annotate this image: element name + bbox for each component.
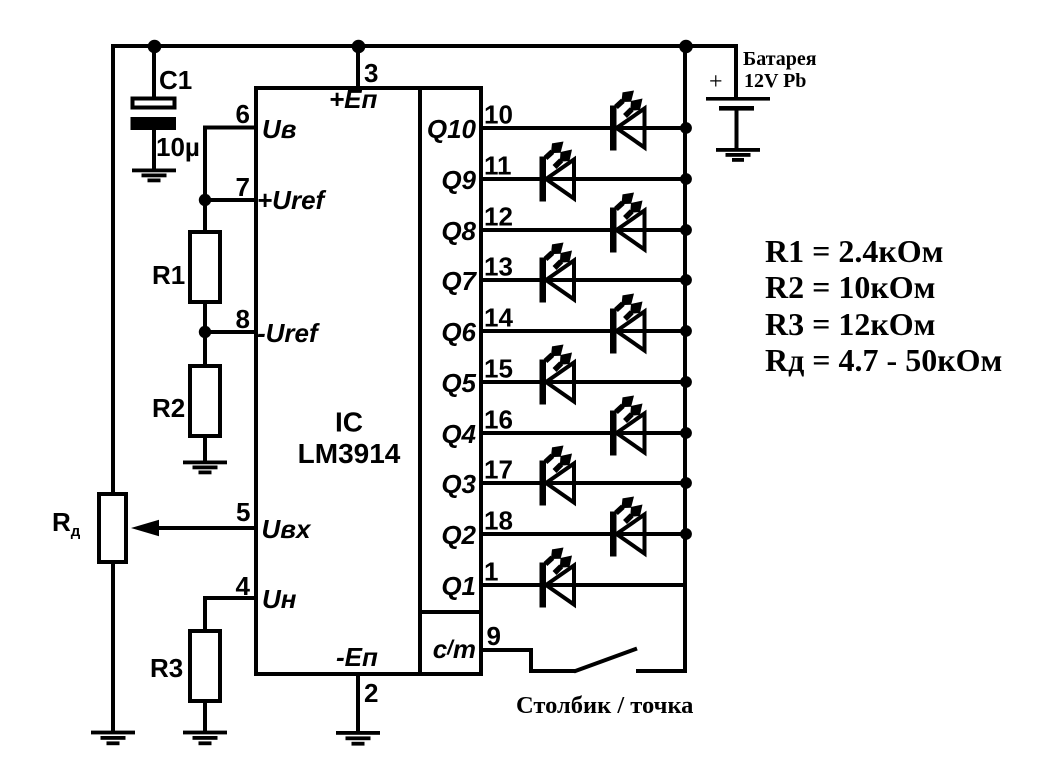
svg-text:2: 2: [364, 678, 378, 708]
junction: pin7 / R1 top: [199, 194, 211, 206]
pin 9 wire: [479, 648, 531, 652]
junction: LED bus row 13: [680, 274, 692, 286]
svg-text:R1 = 2.4кОм: R1 = 2.4кОм: [765, 233, 943, 269]
junction: LED bus row 12: [680, 224, 692, 236]
pin 6 wire: [205, 126, 256, 130]
svg-text:18: 18: [484, 506, 513, 536]
svg-text:R2 = 10кОм: R2 = 10кОм: [765, 269, 935, 305]
wire: LED anode bus: [683, 46, 687, 671]
svg-text:Rд = 4.7 - 50кОм: Rд = 4.7 - 50кОм: [765, 342, 1002, 378]
ground under C1: [132, 169, 176, 183]
svg-text:8: 8: [236, 304, 250, 334]
wire pin6 to pin7 node: [203, 126, 207, 203]
junction: LED bus row 15: [680, 376, 692, 388]
battery positive plate: [706, 97, 770, 101]
LED D17: [540, 446, 575, 506]
wire: C1 to ground: [152, 130, 156, 169]
LED D16: [610, 396, 645, 456]
wire: top +V rail: [111, 44, 738, 48]
ground battery: [716, 148, 760, 162]
svg-text:16: 16: [484, 405, 513, 435]
svg-text:7: 7: [236, 172, 250, 202]
wire output Q4 row: [479, 431, 687, 435]
wire pin4 down to R3: [203, 596, 207, 631]
svg-text:Q9: Q9: [441, 165, 476, 195]
IC inner output column line: [418, 88, 422, 672]
junction: LED bus row 14: [680, 325, 692, 337]
capacitor C1 plate bottom: [131, 117, 177, 130]
svg-text:R3 = 12кОм: R3 = 12кОм: [765, 306, 935, 342]
svg-text:Q7: Q7: [441, 266, 477, 296]
junction: LED bus row 10: [680, 122, 692, 134]
junction: bus / top rail: [679, 40, 693, 54]
junction: C1 / top rail: [148, 40, 162, 54]
IC c/m divider: [420, 610, 481, 614]
wiper arrow into Rд: [131, 520, 159, 537]
svg-text:10: 10: [484, 100, 513, 130]
LED D14: [610, 294, 645, 354]
junction: LED bus row 11: [680, 173, 692, 185]
svg-text:17: 17: [484, 455, 513, 485]
wire: left rail down to Rd: [111, 44, 115, 494]
svg-text:15: 15: [484, 354, 513, 384]
LED D15: [540, 345, 575, 405]
svg-text:Q5: Q5: [441, 368, 476, 398]
wire output Q9 row: [479, 177, 687, 181]
junction: pin8 / R2 top: [199, 326, 211, 338]
svg-text:IC: IC: [335, 407, 363, 438]
resistor R1 body: [190, 232, 220, 302]
wire output Q7 row: [479, 278, 687, 282]
svg-text:9: 9: [487, 621, 501, 651]
ground under pin 2: [336, 731, 380, 746]
wire R2 bottom to ground: [203, 435, 207, 461]
svg-text:Q4: Q4: [441, 419, 476, 449]
wire: C1 to rail: [152, 46, 156, 98]
LED D1: [540, 548, 575, 608]
svg-text:Q6: Q6: [441, 317, 476, 347]
junction: LED bus row 17: [680, 477, 692, 489]
svg-text:R3: R3: [150, 653, 183, 683]
resistor R2 body: [190, 366, 220, 436]
wire to switch pole: [529, 669, 575, 673]
capacitor C1 plate top: [133, 99, 175, 108]
LED D13: [540, 243, 575, 303]
svg-text:c/m: c/m: [433, 634, 476, 664]
wire output Q2 row: [479, 532, 687, 536]
wire R3 bottom to ground: [203, 700, 207, 732]
battery wire from rail: [734, 44, 738, 99]
svg-text:+Uref: +Uref: [257, 185, 327, 215]
wire output Q5 row: [479, 380, 687, 384]
wire output Q6 row: [479, 329, 687, 333]
svg-text:Uв: Uв: [262, 114, 297, 144]
wire: Rd bottom to ground: [111, 562, 115, 732]
svg-text:Q1: Q1: [441, 571, 476, 601]
svg-text:Uвх: Uвх: [262, 514, 312, 544]
junction: pin3 / rail: [352, 40, 366, 54]
wire pin9 step down: [529, 648, 533, 671]
pin 7 wire: [205, 198, 256, 202]
battery negative plate: [719, 106, 754, 111]
ground under Rд: [91, 731, 135, 746]
pin 2 wire: [356, 672, 360, 733]
svg-text:+Eп: +Eп: [329, 84, 378, 114]
ground under R3: [183, 731, 227, 746]
junction: LED bus row 16: [680, 427, 692, 439]
svg-text:12V Pb: 12V Pb: [744, 70, 806, 92]
LED D10: [610, 91, 645, 151]
svg-text:5: 5: [236, 497, 250, 527]
svg-text:+: +: [709, 69, 723, 95]
op IC LM3914 box: [256, 88, 481, 674]
svg-text:Uн: Uн: [262, 584, 297, 614]
wire output Q8 row: [479, 228, 687, 232]
svg-text:12: 12: [484, 202, 513, 232]
junction: LED bus row 18: [680, 528, 692, 540]
svg-text:LM3914: LM3914: [298, 438, 401, 469]
pin 8 wire: [205, 330, 256, 334]
LED D11: [540, 142, 575, 202]
battery wire to ground: [735, 110, 739, 150]
svg-text:Столбик / точка: Столбик / точка: [516, 692, 693, 719]
resistor R3 body: [190, 631, 220, 701]
wire output Q3 row: [479, 481, 687, 485]
wire R2 top: [203, 332, 207, 366]
ground under R2: [183, 461, 227, 475]
svg-text:14: 14: [484, 303, 513, 333]
pin 5 wire: [157, 526, 256, 530]
svg-text:C1: C1: [159, 65, 192, 95]
wire R1 bottom to pin8 node: [203, 302, 207, 334]
svg-text:13: 13: [484, 252, 513, 282]
svg-text:R2: R2: [152, 393, 185, 423]
svg-text:Батарея: Батарея: [743, 48, 817, 70]
potentiometer Rд body: [99, 494, 126, 562]
svg-text:1: 1: [484, 557, 498, 587]
svg-text:Q2: Q2: [441, 520, 476, 550]
wire R1 top: [203, 200, 207, 232]
wire output Q1 row: [479, 583, 687, 587]
svg-text:-Eп: -Eп: [336, 642, 378, 672]
svg-text:Q10: Q10: [427, 114, 477, 144]
svg-text:6: 6: [236, 99, 250, 129]
LED D18: [610, 497, 645, 557]
pin 4 wire: [205, 596, 256, 600]
LED D12: [610, 193, 645, 253]
svg-text:11: 11: [484, 151, 512, 181]
svg-text:4: 4: [236, 571, 251, 601]
pin 3 wire: [356, 46, 360, 90]
wire output Q10 row: [479, 126, 687, 130]
svg-text:Q3: Q3: [441, 469, 476, 499]
svg-text:-Uref: -Uref: [257, 318, 320, 348]
svg-text:R1: R1: [152, 260, 185, 290]
switch fixed contact wire: [636, 669, 687, 673]
svg-text:Q8: Q8: [441, 216, 476, 246]
switch blade (столбик/точка): [574, 649, 637, 672]
svg-text:10µ: 10µ: [156, 132, 200, 162]
